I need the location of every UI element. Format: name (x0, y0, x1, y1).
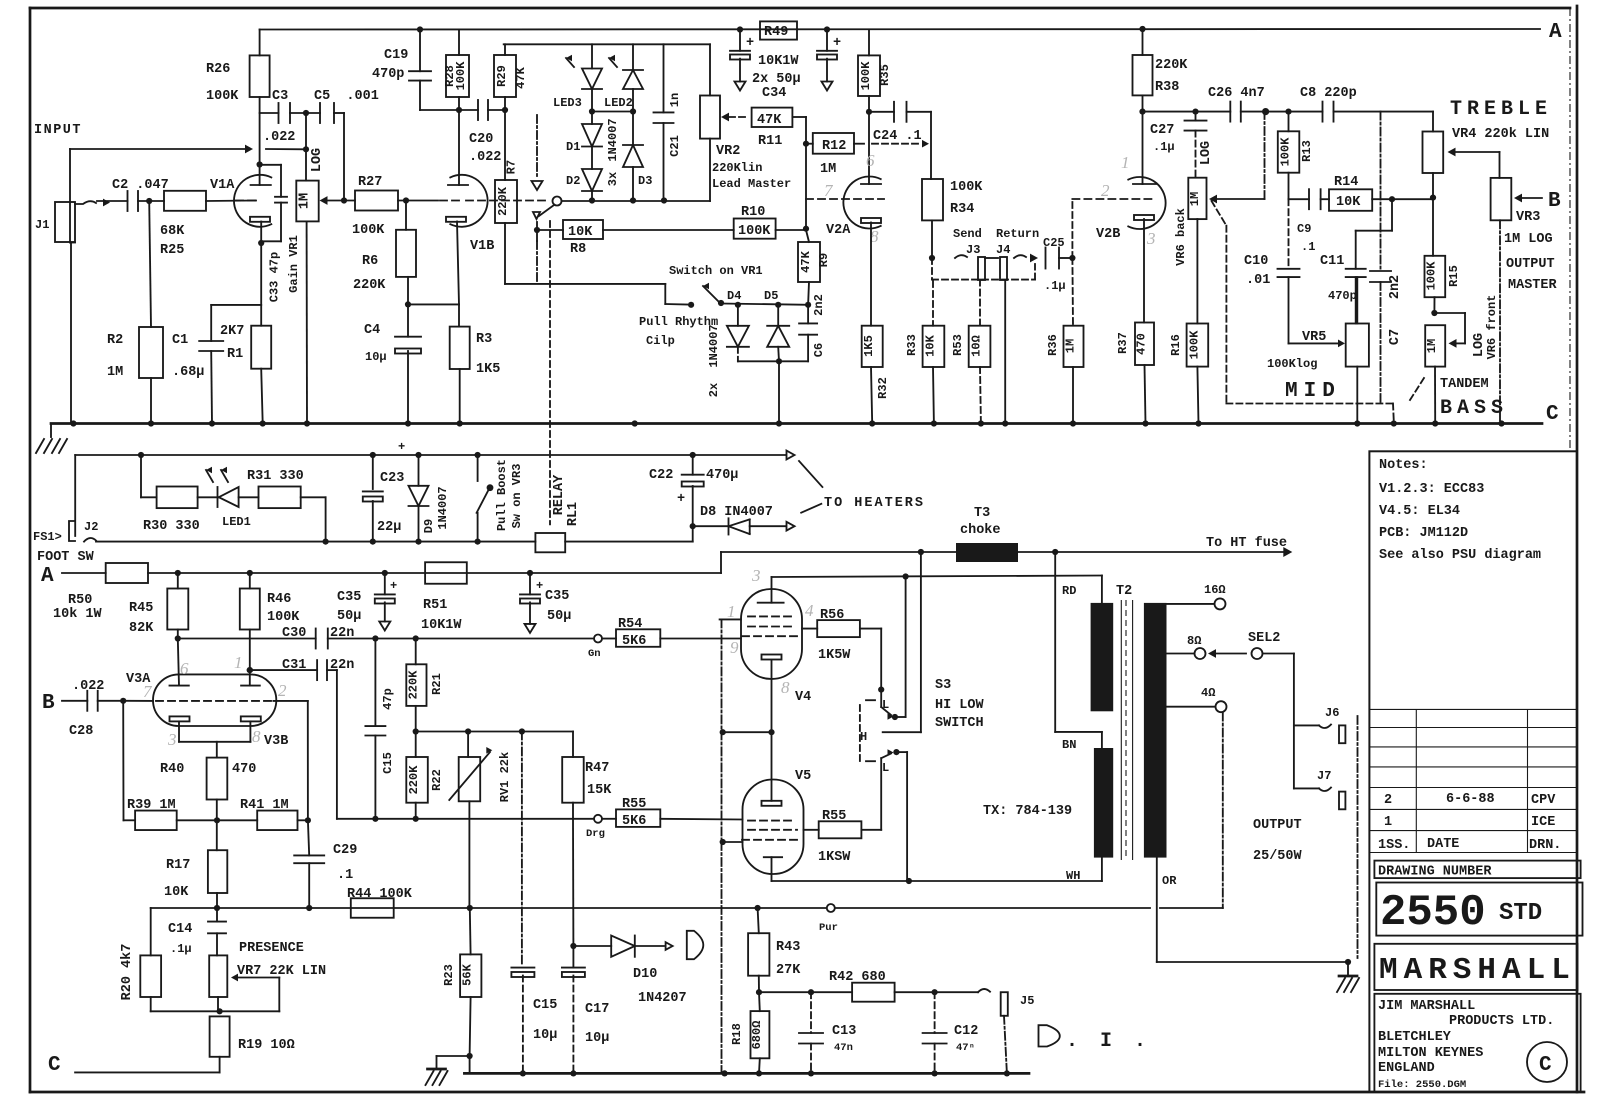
svg-text:2K7: 2K7 (220, 324, 244, 339)
wire R56 to switch (860, 628, 881, 630)
switch pull boost on VR3 (477, 455, 479, 481)
svg-text:50µ: 50µ (337, 609, 361, 624)
svg-text:LED3: LED3 (553, 96, 582, 110)
svg-text:2: 2 (1101, 181, 1110, 200)
svg-text:47K: 47K (799, 250, 813, 272)
wire R23 ground (437, 1055, 470, 1057)
svg-text:J6: J6 (1325, 706, 1339, 720)
svg-text:22µ: 22µ (377, 520, 401, 535)
svg-text:50µ: 50µ (547, 609, 571, 624)
svg-text:VR6 front: VR6 front (1485, 295, 1499, 360)
capacitor C34b 50u (826, 30, 828, 51)
svg-text:.1: .1 (1301, 240, 1315, 254)
svg-text:R1: R1 (227, 347, 243, 362)
tap 8 ohm SEL2 (1167, 653, 1195, 655)
revision table (1369, 708, 1577, 710)
svg-text:R15: R15 (1447, 265, 1461, 287)
svg-text:R8: R8 (570, 242, 586, 257)
svg-text:+: + (677, 492, 685, 507)
svg-text:D3: D3 (638, 174, 652, 188)
svg-text:R32: R32 (876, 377, 890, 399)
svg-text:.022: .022 (469, 150, 501, 165)
svg-text:A: A (1549, 21, 1562, 44)
svg-text:H: H (860, 730, 867, 744)
resistor R23 56K (469, 908, 472, 954)
resistor R49 10K1W (737, 26, 743, 32)
svg-text:.01: .01 (1246, 273, 1270, 288)
svg-text:R16: R16 (1169, 334, 1183, 356)
tap 4 ohm (1167, 706, 1215, 708)
transformer T2 core (1120, 600, 1122, 860)
potentiometer VR7 presence 22K LIN (209, 955, 227, 997)
drawing number box (1374, 861, 1580, 879)
wire SEL2 to J6 J7 (1263, 653, 1294, 655)
svg-text:V4.5: EL34: V4.5: EL34 (1379, 504, 1460, 519)
svg-text:100K: 100K (1188, 330, 1202, 360)
capacitor C2 .047 (127, 191, 129, 211)
svg-text:47n: 47n (834, 1042, 853, 1054)
ground bus bottom (464, 1072, 1029, 1075)
svg-text:.1: .1 (337, 868, 353, 883)
svg-text:MASTER: MASTER (1508, 278, 1558, 293)
svg-text:C3: C3 (272, 89, 288, 104)
resistor R9 47K (806, 230, 809, 242)
ground bus main (51, 422, 1542, 425)
svg-text:R14: R14 (1334, 175, 1358, 190)
svg-text:1M: 1M (298, 193, 313, 209)
svg-text:470p: 470p (1328, 289, 1357, 303)
diode D1 1N4007 (591, 112, 593, 125)
svg-text:15K: 15K (587, 783, 612, 798)
svg-text:D4: D4 (727, 289, 741, 303)
resistor R6 220K (405, 201, 407, 230)
svg-text:VR2: VR2 (716, 144, 740, 159)
capacitor C1 .68u (211, 304, 261, 306)
svg-text:ENGLAND: ENGLAND (1378, 1061, 1435, 1076)
wire C3 to C5 (290, 112, 320, 114)
svg-text:B: B (42, 692, 55, 715)
svg-text:1K5W: 1K5W (818, 648, 851, 663)
capacitor C35b 50u (529, 573, 531, 594)
svg-text:L: L (882, 698, 889, 712)
svg-text:D9: D9 (422, 519, 436, 533)
svg-text:FOOT SW: FOOT SW (37, 550, 95, 565)
svg-text:100Klog: 100Klog (1267, 357, 1317, 371)
svg-text:J2: J2 (84, 520, 98, 534)
svg-text:R47: R47 (585, 761, 609, 776)
resistor R39 1M (135, 811, 177, 831)
capacitor C28 .022 (86, 691, 88, 711)
svg-text:R20 4k7: R20 4k7 (120, 944, 135, 1001)
svg-text:10k 1W: 10k 1W (53, 607, 103, 622)
label D.I. (1039, 1025, 1060, 1046)
potentiometer VR6 front 1M tandem bass (1425, 325, 1445, 366)
capacitor C6 2n2 (807, 305, 809, 324)
svg-text:C31: C31 (282, 658, 306, 673)
svg-text:100K: 100K (859, 61, 873, 91)
svg-text:C10: C10 (1244, 254, 1268, 269)
node Gn (594, 635, 602, 643)
node Drg (594, 815, 602, 823)
wire choke to HT fuse (1018, 551, 1285, 553)
svg-text:C35: C35 (545, 589, 569, 604)
svg-text:R50: R50 (68, 593, 92, 608)
svg-text:C34: C34 (762, 86, 786, 101)
svg-text:1M: 1M (107, 365, 123, 380)
triode V2B (1128, 177, 1165, 229)
svg-text:File: 2550.DGM: File: 2550.DGM (1378, 1079, 1466, 1091)
svg-text:C4: C4 (364, 323, 380, 338)
wire treble slope row (1289, 198, 1310, 200)
svg-text:470: 470 (1135, 333, 1149, 355)
resistor R34 100K (922, 179, 943, 220)
svg-text:Pur: Pur (819, 922, 838, 934)
resistor R51 10K1W (425, 562, 467, 584)
svg-text:1: 1 (234, 653, 243, 672)
svg-text:C22: C22 (649, 468, 673, 483)
svg-text:R18: R18 (730, 1023, 744, 1045)
svg-text:10K: 10K (924, 334, 938, 356)
wire relay actuator dashed (549, 221, 551, 524)
wire V3B grid to R41 (273, 700, 307, 702)
wire A row (148, 572, 721, 574)
wire footswitch loop top (75, 454, 693, 456)
wire bias dashed to C16 (521, 732, 523, 966)
resistor R31 330 (239, 496, 259, 498)
svg-text:9: 9 (730, 638, 739, 657)
jack J5 (935, 991, 978, 993)
capacitor C34a 50u (739, 30, 741, 51)
svg-text:10K: 10K (568, 225, 593, 240)
capacitor C22 470u (692, 455, 694, 475)
resistor R28 100K (458, 30, 460, 56)
svg-text:27K: 27K (776, 963, 801, 978)
transformer T2 secondary (1144, 603, 1167, 858)
svg-text:VR3: VR3 (1516, 210, 1540, 225)
svg-text:T2: T2 (1116, 584, 1132, 599)
wire clip bus y200 (562, 200, 711, 202)
svg-text:C25: C25 (1043, 236, 1065, 250)
pentode V5 EL34 (743, 780, 804, 875)
svg-text:1M LOG: 1M LOG (1504, 232, 1553, 247)
resistor R3 1K5 (450, 327, 470, 369)
drawing number 2550 STD (1376, 883, 1582, 936)
svg-text:.68µ: .68µ (172, 365, 204, 380)
svg-text:R22: R22 (430, 769, 444, 791)
wire V4 anode to T2 RD (772, 576, 1102, 578)
svg-text:1N4007: 1N4007 (606, 118, 620, 161)
capacitor C30 22n (315, 629, 317, 649)
resistor R29 47K (494, 55, 516, 97)
svg-text:J7: J7 (1317, 769, 1331, 783)
wire C31 down to Drg row (327, 669, 337, 671)
svg-text:C15: C15 (533, 998, 557, 1013)
svg-text:R44 100K: R44 100K (347, 887, 413, 902)
resistor R37 470 (1135, 323, 1154, 366)
switch S3 HI LOW (883, 731, 921, 733)
svg-text:R36: R36 (1046, 334, 1060, 356)
capacitor C26 4n7 (1229, 102, 1231, 122)
svg-text:TX: 784-139: TX: 784-139 (983, 804, 1072, 819)
svg-text:10K1W: 10K1W (758, 54, 799, 69)
svg-text:Switch on VR1: Switch on VR1 (669, 264, 763, 278)
wire RD primary top (1101, 576, 1103, 603)
capacitor C23 22u (372, 455, 374, 489)
wire R47 col to C17 (572, 819, 574, 946)
svg-text:MILTON KEYNES: MILTON KEYNES (1378, 1046, 1483, 1061)
svg-text:TREBLE: TREBLE (1450, 98, 1552, 121)
svg-text:C: C (1539, 1054, 1552, 1077)
svg-text:4: 4 (805, 601, 814, 620)
capacitor C3 .022 (260, 112, 279, 114)
svg-text:C9: C9 (1297, 222, 1311, 236)
svg-text:L: L (882, 761, 889, 775)
svg-text:VR4 220k LIN: VR4 220k LIN (1452, 127, 1549, 142)
wire R14 to VR4 bottom (1372, 198, 1433, 200)
svg-text:Return: Return (996, 227, 1039, 241)
node Pur (827, 904, 835, 912)
svg-text:D2: D2 (566, 174, 580, 188)
wire rail2 feeding clip diodes (504, 43, 710, 45)
svg-text:47p: 47p (381, 688, 395, 710)
svg-text:+: + (390, 579, 397, 593)
svg-text:OUTPUT: OUTPUT (1506, 257, 1555, 272)
svg-text:+: + (398, 440, 405, 454)
svg-text:RL1: RL1 (566, 502, 581, 526)
svg-text:47K: 47K (757, 113, 782, 128)
resistor R43 27K (748, 933, 769, 976)
wire to heaters arrow (693, 454, 786, 456)
svg-text:.1µ: .1µ (1044, 279, 1066, 293)
svg-text:1M: 1M (1425, 339, 1439, 353)
resistor R55 1K5W screen (804, 829, 819, 831)
svg-text:R40: R40 (160, 762, 184, 777)
wire Gn row with C30 (178, 638, 316, 640)
svg-text:Drg: Drg (586, 828, 605, 840)
svg-text:R56: R56 (820, 608, 844, 623)
svg-text:R37: R37 (1116, 332, 1130, 354)
svg-text:680Ω: 680Ω (750, 1021, 764, 1050)
svg-text:RELAY: RELAY (552, 474, 567, 515)
resistor R26 100K (259, 30, 261, 56)
svg-text:OR: OR (1162, 874, 1177, 888)
resistor R50 10k 1W (106, 563, 148, 583)
wire g3 bracket (720, 618, 741, 620)
potentiometer VR5 100Klog MID (1346, 324, 1369, 367)
capacitor C12 47n (923, 1032, 947, 1034)
svg-text:+: + (833, 36, 841, 51)
resistor R36 1M (1071, 258, 1074, 326)
potentiometer VR6 back 1M LOG (1188, 178, 1206, 219)
svg-text:8: 8 (252, 727, 261, 746)
capacitor C16 10u (511, 967, 534, 969)
wire R27 to V1B grid (398, 200, 438, 202)
svg-text:C33 47p: C33 47p (268, 252, 282, 302)
trimmer RV1 22k (467, 732, 469, 758)
svg-text:1SS.: 1SS. (1378, 838, 1410, 853)
svg-text:R53: R53 (951, 334, 965, 356)
svg-text:TANDEM: TANDEM (1440, 377, 1489, 392)
svg-text:LED2: LED2 (604, 96, 633, 110)
capacitor C31 22n (250, 669, 317, 671)
svg-text:ICE: ICE (1531, 815, 1555, 830)
relay RL1 (535, 533, 565, 552)
wire V1B cathode (457, 222, 459, 305)
svg-text:2550: 2550 (1380, 888, 1486, 938)
resistor R53 10ohm (969, 326, 991, 367)
logo MARSHALL (1374, 944, 1577, 990)
svg-text:C: C (48, 1054, 61, 1077)
resistor R40 470 (207, 758, 228, 800)
svg-text:220K: 220K (407, 670, 421, 700)
svg-text:Pull Boost: Pull Boost (495, 459, 509, 531)
resistor R42 680 (852, 983, 895, 1002)
svg-text:C29: C29 (333, 843, 357, 858)
resistor R44 100K (351, 898, 394, 918)
wire LED junction (592, 111, 633, 113)
svg-text:10K1W: 10K1W (421, 618, 462, 633)
LED1 (198, 496, 219, 498)
svg-text:1M: 1M (820, 162, 836, 177)
svg-text:82K: 82K (129, 621, 154, 636)
resistor R15 100K (1425, 256, 1446, 297)
wire C30 to drive (328, 638, 594, 640)
diode D3 (632, 112, 634, 146)
svg-text:D10: D10 (633, 967, 657, 982)
svg-text:C1: C1 (172, 333, 188, 348)
wire C8 to VR4 (1334, 111, 1434, 113)
svg-text:C21: C21 (668, 135, 682, 157)
capacitor C9 .1 (1308, 189, 1310, 209)
capacitor C29 .1 (308, 820, 309, 855)
switch on VR1 contact (553, 197, 562, 206)
diode D4 (737, 305, 739, 326)
svg-text:56K: 56K (461, 963, 475, 985)
wire C28 to V3A grid (98, 700, 153, 702)
resistor R25 68K (164, 191, 206, 211)
svg-text:R25: R25 (160, 243, 184, 258)
svg-text:1K5: 1K5 (476, 362, 500, 377)
svg-text:10Ω: 10Ω (970, 335, 984, 357)
capacitor C11 470p (1346, 268, 1366, 270)
resistor R21 220K (415, 639, 417, 665)
svg-text:3: 3 (751, 566, 761, 585)
svg-text:.022: .022 (263, 130, 295, 145)
svg-text:C24 .1: C24 .1 (873, 129, 922, 144)
capacitor C7 2n2 (1380, 112, 1382, 270)
svg-text:MARSHALL: MARSHALL (1379, 953, 1576, 988)
svg-text:1N4207: 1N4207 (638, 991, 687, 1006)
svg-text:V2A: V2A (826, 223, 851, 238)
svg-text:Cilp: Cilp (646, 334, 675, 348)
capacitor C33 47p (261, 164, 281, 166)
svg-text:FS1>: FS1> (33, 530, 62, 544)
wire VR6b to R16 (1196, 219, 1198, 323)
svg-text:100K: 100K (206, 89, 239, 104)
wire C19 to C20 (420, 109, 478, 111)
svg-text:Gain VR1: Gain VR1 (287, 235, 301, 293)
svg-text:STD: STD (1499, 900, 1542, 927)
svg-text:R13: R13 (1300, 140, 1314, 162)
wire Drg row (337, 818, 594, 820)
svg-text:100K: 100K (1279, 137, 1293, 167)
wire C5 to wiper node (334, 112, 344, 114)
capacitor C10 .01 (1288, 199, 1290, 269)
diode D9 1N4007 (418, 455, 420, 486)
svg-text:1KSW: 1KSW (818, 850, 851, 865)
svg-text:V1B: V1B (470, 239, 494, 254)
capacitor C14 .1u (216, 908, 218, 922)
triode V2A (843, 177, 880, 229)
svg-text:R6: R6 (362, 254, 378, 269)
svg-text:BASS: BASS (1440, 397, 1508, 420)
svg-text:SEL2: SEL2 (1248, 631, 1280, 646)
svg-text:100K: 100K (1425, 261, 1439, 291)
wire OR secondary bottom (1156, 858, 1158, 962)
svg-text:R46: R46 (267, 592, 291, 607)
capacitor C27 .1u (1195, 112, 1197, 121)
resistor R19 10ohm (210, 1016, 230, 1056)
double triode V3A V3B (153, 674, 276, 726)
svg-text:10K: 10K (164, 885, 189, 900)
wire V2A cathode to R32 (870, 223, 872, 326)
svg-text:OUTPUT: OUTPUT (1253, 818, 1302, 833)
svg-text:3x: 3x (606, 172, 620, 186)
svg-text:Sw on VR3: Sw on VR3 (510, 464, 524, 529)
svg-text:8Ω: 8Ω (1187, 634, 1201, 648)
svg-text:BN: BN (1062, 738, 1076, 752)
send return jacks J3 J4 (929, 255, 935, 261)
svg-text:R11: R11 (758, 134, 782, 149)
svg-text:2x: 2x (707, 383, 721, 397)
svg-text:47ⁿ: 47ⁿ (956, 1042, 975, 1054)
address box (1374, 994, 1580, 1092)
wire cathode join to g3 (722, 731, 772, 733)
svg-text:6-6-88: 6-6-88 (1446, 792, 1495, 807)
svg-text:C: C (1546, 403, 1559, 426)
svg-text:Lead Master: Lead Master (712, 177, 791, 191)
wire C10 to VR5 wiper (1289, 342, 1339, 344)
svg-text:R43: R43 (776, 940, 800, 955)
wire C26 to C8 (1241, 111, 1323, 113)
diode D2 (582, 169, 602, 191)
svg-text:10µ: 10µ (365, 350, 387, 364)
svg-text:3: 3 (1146, 229, 1156, 248)
svg-text:VR5: VR5 (1302, 330, 1326, 345)
resistor R1 2K7 (251, 326, 271, 369)
jack J7 (1294, 787, 1319, 789)
svg-text:Send: Send (953, 227, 982, 241)
resistor R12 1M (813, 133, 854, 154)
capacitor C25 .1u (1045, 248, 1047, 269)
svg-text:C30: C30 (282, 626, 306, 641)
wire footswitch loop left (74, 455, 76, 536)
svg-text:C28: C28 (69, 724, 93, 739)
wire R12 dashed to R34 column (854, 143, 864, 145)
svg-text:R12: R12 (822, 139, 846, 154)
wire R26 to anode (259, 97, 261, 185)
svg-text:C14: C14 (168, 922, 192, 937)
svg-text:R29: R29 (495, 65, 509, 87)
svg-text:D8 IN4007: D8 IN4007 (700, 505, 773, 520)
svg-text:6: 6 (180, 659, 189, 678)
wire rhythm clip bus (721, 304, 808, 305)
wire B+ step to choke (720, 552, 722, 573)
svg-text:R9: R9 (817, 253, 831, 267)
copyright circle (1527, 1042, 1567, 1082)
svg-text:R49: R49 (764, 25, 788, 40)
svg-text:B: B (1548, 190, 1561, 213)
